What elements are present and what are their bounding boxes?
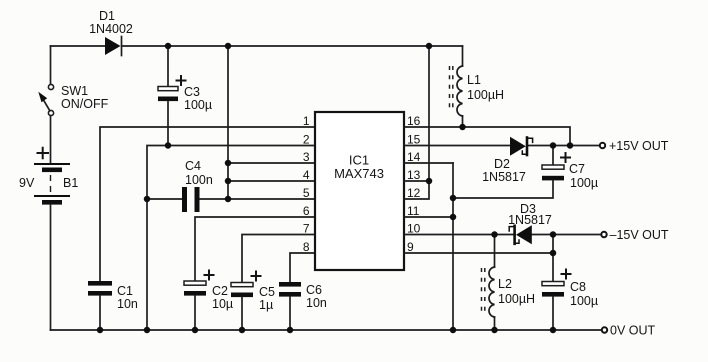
svg-text:3: 3 — [303, 150, 310, 164]
terminal 0V OUT — [602, 327, 607, 332]
wire C6 bottom — [289, 297, 291, 330]
junction rail L2 — [491, 327, 498, 334]
junction rail ground — [450, 327, 457, 334]
junction pin4 — [225, 178, 232, 185]
wire vertical feed pins 3-5 — [227, 46, 229, 199]
svg-text:10µ: 10µ — [212, 297, 233, 311]
wire C7 top — [552, 146, 554, 165]
inductor L2 — [482, 235, 495, 331]
svg-text:100n: 100n — [185, 173, 213, 187]
svg-text:MAX743: MAX743 — [334, 166, 384, 181]
battery plus sign — [37, 147, 50, 159]
capacitor C8 — [542, 282, 564, 297]
junction top rail pins345 feed — [225, 43, 232, 50]
wire C3 top — [167, 46, 169, 86]
wire top rail right segment — [122, 45, 463, 47]
junction rail C1 — [97, 327, 104, 334]
svg-text:1N5817: 1N5817 — [482, 170, 526, 184]
junction pin3 — [225, 160, 232, 167]
battery B1 — [34, 163, 70, 205]
wire left drop to switch — [50, 46, 52, 84]
C8 plus sign — [561, 269, 572, 280]
wire ground vertical — [452, 163, 454, 330]
svg-text:B1: B1 — [63, 176, 78, 190]
wire pin5 through C4 — [147, 198, 315, 200]
svg-text:2: 2 — [303, 133, 310, 147]
svg-text:4: 4 — [303, 168, 310, 182]
diode D2 — [510, 137, 533, 156]
wire D2 to +15V terminal — [527, 145, 600, 147]
capacitor C2 — [184, 281, 206, 296]
svg-text:14: 14 — [407, 150, 421, 164]
svg-text:D2: D2 — [494, 157, 510, 171]
svg-text:12: 12 — [407, 186, 421, 200]
wire C7 bottom to ground line — [453, 181, 553, 198]
junction ground C7 return — [450, 195, 457, 202]
wire pin11 stub — [404, 216, 453, 218]
svg-text:10n: 10n — [306, 296, 327, 310]
svg-text:SW1: SW1 — [61, 84, 88, 98]
svg-text:6: 6 — [303, 204, 310, 218]
op-amp IC1 box — [315, 112, 404, 270]
svg-text:9: 9 — [407, 240, 414, 254]
svg-text:8: 8 — [303, 240, 310, 254]
junction pin9 C8 — [550, 250, 557, 257]
svg-text:C6: C6 — [306, 283, 322, 297]
svg-text:5: 5 — [303, 186, 310, 200]
svg-text:10n: 10n — [117, 297, 138, 311]
svg-text:0V OUT: 0V OUT — [610, 324, 656, 338]
svg-text:9V: 9V — [19, 176, 35, 190]
inductor L1 — [450, 46, 463, 127]
capacitor C5 — [231, 283, 253, 298]
junction rail pin2 — [144, 327, 151, 334]
wire -15V node down to C8 — [552, 235, 554, 282]
junction L1 bottom — [459, 124, 466, 131]
wire pin7 to C5 — [242, 235, 315, 283]
diode D3 — [509, 225, 532, 244]
junction rail C2 — [192, 327, 199, 334]
svg-text:1N5817: 1N5817 — [508, 213, 552, 227]
junction top rail C3 — [165, 43, 172, 50]
wire pin10 to D3 — [404, 234, 515, 236]
wire pin13 stub — [404, 180, 429, 182]
wire top rail left segment — [51, 45, 106, 47]
wire C5 bottom — [241, 297, 243, 330]
svg-text:C1: C1 — [117, 284, 133, 298]
svg-text:7: 7 — [303, 222, 310, 236]
junction pin11 — [450, 214, 457, 221]
wire D3 to -15V terminal — [532, 234, 601, 236]
C7 plus sign — [560, 152, 571, 163]
wire pin15 to D2 — [404, 145, 510, 147]
svg-text:100µ: 100µ — [184, 98, 212, 112]
junction C3 bottom — [165, 142, 172, 149]
wire supply vertical to pins 13 12 — [404, 46, 429, 199]
svg-text:C4: C4 — [185, 159, 201, 173]
svg-text:C5: C5 — [259, 285, 275, 299]
capacitor C6 — [279, 282, 301, 297]
C5 plus sign — [251, 271, 262, 282]
wire pin16 to L1 bottom and +15V node — [404, 127, 570, 146]
svg-text:1N4002: 1N4002 — [89, 22, 133, 36]
wire pin9 to C8 node — [404, 252, 553, 254]
junction top rail supply feed — [426, 43, 433, 50]
wire pin3 — [228, 162, 315, 164]
wire switch to battery — [50, 116, 52, 163]
svg-text:C3: C3 — [184, 85, 200, 99]
svg-text:100µH: 100µH — [498, 292, 535, 306]
capacitor C4 — [182, 187, 200, 212]
junction C7 top — [550, 142, 557, 149]
wire C1 bottom — [99, 296, 101, 330]
svg-text:D1: D1 — [99, 9, 115, 23]
svg-text:13: 13 — [407, 168, 421, 182]
svg-text:1µ: 1µ — [259, 298, 273, 312]
wire pin2 — [147, 146, 315, 331]
svg-text:C7: C7 — [569, 162, 585, 176]
junction pin16 +15V node — [567, 142, 574, 149]
svg-text:11: 11 — [407, 204, 420, 218]
svg-text:16: 16 — [407, 114, 421, 128]
junction L2 top — [491, 231, 498, 238]
svg-text:1: 1 — [303, 114, 310, 128]
svg-text:100µ: 100µ — [570, 176, 598, 190]
C3 plus sign — [176, 75, 187, 86]
wire pin4 — [228, 180, 315, 182]
C2 plus sign — [204, 270, 215, 281]
svg-text:100µ: 100µ — [570, 294, 598, 308]
svg-text:+15V OUT: +15V OUT — [609, 139, 669, 153]
capacitor C7 — [542, 165, 564, 180]
svg-text:L2: L2 — [498, 277, 512, 291]
junction pin13 — [426, 178, 433, 185]
junction rail C8 — [550, 327, 557, 334]
capacitor C3 — [158, 87, 178, 102]
wire bottom rail — [51, 329, 602, 331]
terminal -15V OUT — [601, 232, 606, 237]
svg-text:L1: L1 — [467, 73, 481, 87]
wire C3 bottom — [167, 101, 169, 145]
wire pin1 from C1 — [100, 127, 315, 281]
junction rail C6 — [287, 327, 294, 334]
switch SW1 — [38, 84, 53, 115]
svg-text:15: 15 — [407, 133, 421, 147]
svg-text:ON/OFF: ON/OFF — [61, 97, 109, 111]
wire C8 bottom — [552, 297, 554, 330]
svg-text:C8: C8 — [570, 280, 586, 294]
capacitor C1 — [88, 281, 112, 296]
junction pin5 — [225, 196, 232, 203]
junction rail C5 — [239, 327, 246, 334]
svg-text:–15V OUT: –15V OUT — [610, 228, 669, 242]
wire pin6 to C2 — [195, 217, 315, 281]
svg-text:100µH: 100µH — [467, 88, 504, 102]
terminal +15V OUT — [600, 143, 605, 148]
junction C4 left — [144, 196, 151, 203]
junction -15V node — [550, 231, 557, 238]
wire pin8 to C6 — [290, 253, 315, 282]
wire battery to bottom rail — [50, 205, 52, 330]
diode D1 — [105, 37, 122, 56]
wire C2 bottom — [194, 296, 196, 330]
svg-text:C2: C2 — [212, 284, 228, 298]
wire pin14 to ground vertical — [404, 162, 453, 164]
svg-text:10: 10 — [407, 222, 421, 236]
